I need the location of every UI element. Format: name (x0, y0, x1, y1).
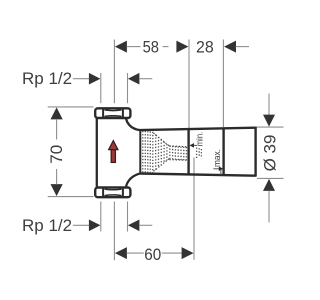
flow arrow (red) (109, 141, 118, 163)
label Rp 1/2 top (22, 69, 152, 88)
svg-text:min.: min. (194, 132, 205, 147)
min pointer (190, 143, 198, 148)
dimension 28 (196, 38, 249, 57)
dimension 60 (115, 245, 194, 264)
svg-text:max.: max. (212, 149, 223, 167)
wire: extension line thread right bottom (127, 202, 129, 232)
wire: extension line centerline top (node pipe axis) (113, 40, 115, 104)
dimension diameter 39 (256, 94, 284, 223)
svg-text:Rp 1/2: Rp 1/2 (22, 216, 72, 235)
dimension 70 (47, 107, 94, 197)
valve body neck arc bottom (126, 173, 140, 186)
valve body neck arc top (126, 119, 140, 130)
wire: extension line thread right top (127, 73, 129, 103)
valve body left edge (96, 118, 98, 186)
dimension 58 (115, 38, 188, 57)
min level line (187, 129, 189, 175)
svg-text:28: 28 (196, 38, 214, 57)
wire: extension line max-level top (222, 40, 224, 128)
wire: extension line thread left bottom (100, 202, 102, 232)
wire: extension line thread left top (100, 73, 102, 103)
label Rp 1/2 bottom (22, 216, 152, 235)
stipple: spindle cartridge dotted texture (143, 131, 202, 173)
wire: extension line centerline bottom (113, 202, 115, 261)
wire: extension line min-level top (188, 40, 190, 129)
svg-text:Rp 1/2: Rp 1/2 (22, 69, 72, 88)
hex nut top (95, 108, 130, 118)
cone housing outline (140, 127, 255, 177)
max pointer (213, 167, 223, 175)
svg-text:Ø 39: Ø 39 (260, 135, 279, 172)
svg-text:60: 60 (144, 245, 161, 264)
max level line (222, 128, 224, 175)
svg-text:58: 58 (143, 38, 159, 57)
wire: extension line 60 right (193, 158, 195, 260)
hex nut bottom (95, 188, 130, 198)
svg-text:70: 70 (47, 145, 66, 164)
